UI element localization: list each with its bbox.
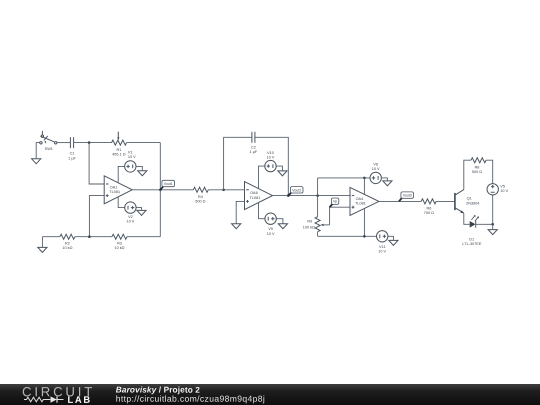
ground (output stage) [488,224,497,234]
resistor R6 700 ohm [421,199,436,215]
switch SW1 [40,131,57,151]
voltage source V5 10V [487,184,509,195]
node G (V11/OA4 V-) [363,235,366,238]
op-amp U1 OA1 TL081 [104,176,132,204]
svg-text:2N3904: 2N3904 [466,201,479,205]
svg-text:1 µF: 1 µF [250,150,258,154]
svg-text:D1: D1 [469,237,474,241]
svg-text:10 V: 10 V [267,155,275,159]
svg-text:10 V: 10 V [500,189,508,193]
svg-text:TL081: TL081 [109,190,120,194]
ground (V6) [383,181,392,186]
svg-text:V1: V1 [128,151,133,155]
flag Vout3 [399,192,414,202]
svg-text:500 Ω: 500 Ω [195,200,205,204]
flag Vp [330,198,339,207]
svg-text:R4: R4 [198,195,203,199]
wire OA6 noninverting to ground [236,201,244,223]
wire C2 to output [255,137,288,195]
node H (emitter/V5/ground) [491,223,494,226]
ground (V1) [138,171,147,176]
svg-text:OA1: OA1 [110,185,118,189]
ground (V9) [278,224,287,229]
svg-text:700 Ω: 700 Ω [424,211,434,215]
output node stage1 [159,189,162,192]
svg-text:Vout1: Vout1 [164,182,173,186]
wire top stage3 to V6 [318,177,371,179]
svg-text:10 V: 10 V [378,250,386,254]
voltage source V2 10V [118,197,141,224]
voltage source V11 10V [377,231,394,254]
wire bottom left [42,236,60,238]
node A (C1/R1/inverting branch) [88,141,91,144]
svg-text:500 Ω: 500 Ω [472,170,482,174]
op-amp U2 OA6 TL081 [245,182,273,210]
ground (V10) [278,171,287,176]
wire rail stage3 [317,178,319,236]
voltage source V9 10V [259,203,283,236]
flag Vout2 [288,187,303,196]
voltage source V6 10V [370,163,387,184]
svg-text:C1: C1 [70,152,75,156]
svg-text:LAB: LAB [67,394,91,405]
wire OA1 output [132,189,193,191]
ground (V11) [389,240,398,245]
wire C2 feedback branch [224,137,252,190]
wire OA4 V- pin [363,208,365,236]
svg-text:V11: V11 [379,245,385,249]
svg-text:V6: V6 [373,163,378,167]
node E (rail3/signal) [316,194,319,197]
wire R1 to feedback rail [127,142,161,144]
svg-text:OA4: OA4 [356,197,364,201]
wire R6 to Q1 base [436,200,454,202]
svg-text:10 kΩ: 10 kΩ [62,246,72,250]
svg-text:LTL-307EE: LTL-307EE [462,242,481,246]
wire LED to V5 node [476,223,493,225]
wire R2 to R3 [75,236,112,238]
svg-text:10 V: 10 V [126,220,134,224]
op-amp U3 OA4 TL081 [350,187,379,215]
resistor R4 500 ohm [193,187,208,203]
node F (V6/OA4 V+) [363,177,366,180]
wire C1 to R1 [74,142,112,144]
svg-text:Vout2: Vout2 [292,188,301,192]
wire Q1 collector up [464,160,471,189]
svg-text:V9: V9 [268,227,273,231]
svg-text:1 µF: 1 µF [68,156,76,160]
wire OA1 noninverting input [89,196,104,237]
wire Q1 emitter down [464,213,470,224]
resistor R3 10k [112,234,127,250]
ground (bottom left) [38,237,47,253]
svg-text:10 kΩ: 10 kΩ [114,246,124,250]
svg-text:100 kΩ: 100 kΩ [303,226,315,230]
svg-text:V10: V10 [267,151,274,155]
svg-text:10 V: 10 V [267,232,275,236]
svg-text:http://circuitlab.com/czua98m9: http://circuitlab.com/czua98m9q4p8j [116,394,265,404]
svg-text:V5: V5 [500,185,505,189]
svg-text:TL081: TL081 [250,196,261,200]
capacitor C2 [250,132,258,154]
svg-text:R2: R2 [65,242,70,246]
capacitor C1 [68,137,76,160]
svg-text:V2: V2 [128,215,133,219]
transistor Q1 2N3904 [455,190,480,214]
svg-text:R1: R1 [116,148,121,152]
svg-text:SW1: SW1 [45,147,53,151]
voltage source V10 10V [259,151,283,189]
flag Vout1 [160,180,174,190]
wire R3 to rail [127,236,160,238]
wire bottom stage3 [318,235,377,237]
voltage source V1 10V [118,151,142,183]
ground (V2) [137,210,146,215]
wire node A down to OA1 inverting input [89,143,104,184]
potentiometer R9 100k [303,207,350,232]
wire R8 to V5 [486,160,493,183]
wire OA4 output [379,200,421,202]
svg-text:R9: R9 [307,220,312,224]
svg-text:Q1: Q1 [467,197,472,201]
resistor R2 10k [60,234,75,250]
node C (R4/C2/OA6 inverting) [222,189,225,192]
node B (R2/R3/noninverting) [88,235,91,238]
svg-text:10 V: 10 V [128,155,136,159]
svg-text:TL081: TL081 [355,202,366,206]
svg-text:R8: R8 [475,165,480,169]
LED D1 LTL-307EE [462,215,481,246]
wire OA4 V+ pin [363,178,365,195]
wire V5 down [492,195,494,224]
wire SW1 to C1 [57,142,70,144]
node D (output2/C2) [287,194,290,197]
svg-text:Vout3: Vout3 [403,194,412,198]
ground G1 (input) [32,143,41,164]
svg-text:Vp: Vp [333,200,337,204]
svg-text:OA6: OA6 [250,191,258,195]
svg-text:10 V: 10 V [372,167,380,171]
svg-text:455.1 Ω: 455.1 Ω [112,153,126,157]
svg-text:R3: R3 [117,242,122,246]
svg-text:C2: C2 [251,145,256,149]
wire feedback rail (vertical) [159,143,161,237]
wire OA6 output to OA4 [273,195,351,197]
svg-text:R6: R6 [426,206,431,210]
resistor R1 (trimmer 455.1 ohm) [112,132,127,157]
resistor R8 500 ohm [471,158,486,174]
ground (OA6 +) [232,224,241,229]
wire R4 to OA6 [208,189,244,191]
